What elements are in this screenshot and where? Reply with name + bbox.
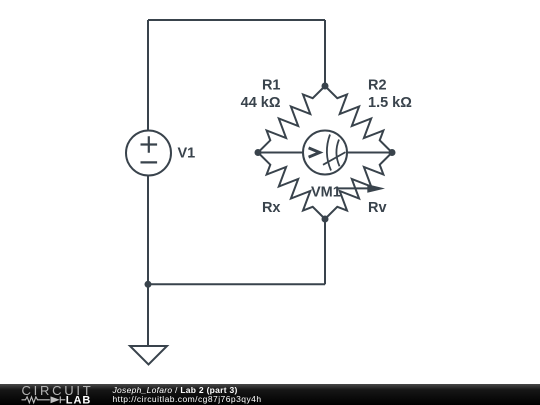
svg-text:V1: V1 xyxy=(178,145,196,161)
node right xyxy=(389,149,396,156)
wire bridge bottom to bottom wire xyxy=(324,219,326,284)
wire ground lead xyxy=(147,284,149,346)
node ground junction xyxy=(145,281,152,288)
wire top horizontal xyxy=(148,19,325,21)
wire left vertical to V1 xyxy=(147,20,149,131)
node bottom xyxy=(322,216,329,223)
resistor Rx xyxy=(258,153,325,220)
Rv wiper arrow xyxy=(337,187,369,189)
CircuitLab logo xyxy=(0,384,110,405)
node top xyxy=(322,83,329,90)
svg-text:1.5 kΩ: 1.5 kΩ xyxy=(368,95,412,111)
junction dots xyxy=(145,83,396,288)
node left xyxy=(255,149,262,156)
svg-text:VM1: VM1 xyxy=(311,185,341,201)
labels xyxy=(178,77,413,216)
wire bottom horizontal xyxy=(148,283,325,285)
resistor R1 xyxy=(258,86,325,153)
resistor R2 xyxy=(325,86,392,153)
voltage source V1 xyxy=(126,131,171,176)
resistor Rv xyxy=(325,153,392,220)
footer bar xyxy=(0,384,540,405)
voltmeter VM1 xyxy=(303,131,347,175)
svg-text:44 kΩ: 44 kΩ xyxy=(241,95,281,111)
wire meter to right node xyxy=(347,152,392,154)
wire right vertical to bridge top xyxy=(324,20,326,86)
ground xyxy=(130,346,167,365)
Rv arrow head xyxy=(367,184,385,193)
wire left node to meter xyxy=(258,152,303,154)
svg-text:Rx: Rx xyxy=(262,200,281,216)
svg-text:LAB: LAB xyxy=(66,394,91,405)
svg-text:Rv: Rv xyxy=(368,200,387,216)
wire V1 to bottom junction xyxy=(147,176,149,285)
svg-text:R1: R1 xyxy=(262,77,281,93)
footer credit line xyxy=(113,386,262,404)
svg-text:R2: R2 xyxy=(368,77,387,93)
